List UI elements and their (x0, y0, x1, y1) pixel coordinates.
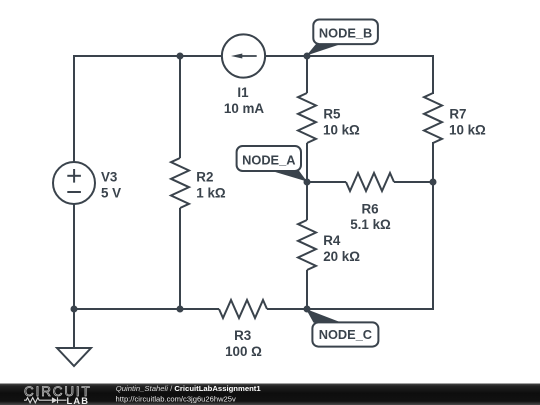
footer bar (0, 384, 540, 405)
node C junction dot (304, 306, 311, 313)
wire right rail upper (432, 55, 434, 94)
svg-text:10 mA: 10 mA (224, 101, 265, 116)
svg-text:10 kΩ: 10 kΩ (449, 123, 486, 138)
resistor R2 (171, 158, 189, 208)
voltage source V3 plus sign (67, 169, 81, 183)
node NODE_A callout (237, 146, 307, 182)
svg-text:http://circuitlab.com/c3jg6u26: http://circuitlab.com/c3jg6u26hw25v (116, 394, 237, 403)
resistor R4 (298, 220, 316, 270)
wire R6 left lead (307, 181, 346, 183)
wire R5 top lead (306, 56, 308, 93)
wire right rail lower (432, 182, 434, 310)
svg-text:R6: R6 (361, 201, 378, 216)
wire R4 top lead (306, 182, 308, 220)
svg-text:R3: R3 (234, 328, 251, 343)
svg-text:I1: I1 (237, 85, 249, 100)
node junction dot R6 right (430, 179, 437, 186)
svg-text:5.1 kΩ: 5.1 kΩ (350, 217, 391, 232)
wire R2 bottom lead (179, 208, 181, 309)
svg-text:NODE_A: NODE_A (242, 152, 295, 167)
svg-text:R2: R2 (196, 169, 213, 184)
svg-text:Quintin_Staheli / CricuitLabAs: Quintin_Staheli / CricuitLabAssignment1 (116, 384, 262, 393)
svg-text:NODE_C: NODE_C (319, 327, 372, 342)
voltage source V3 minus sign (67, 191, 81, 193)
ground (57, 309, 91, 366)
node junction dot top of R2 (177, 53, 184, 60)
wire left rail upper (73, 55, 75, 162)
svg-text:1 kΩ: 1 kΩ (196, 186, 226, 201)
svg-text:V3: V3 (101, 169, 117, 184)
svg-text:R7: R7 (449, 107, 466, 122)
svg-text:NODE_B: NODE_B (319, 26, 372, 41)
resistor R5 (298, 93, 316, 143)
node NODE_C callout (306, 309, 378, 347)
svg-text:100 Ω: 100 Ω (225, 344, 262, 359)
wire bottom-left segment (73, 308, 219, 310)
wire top-right segment (265, 55, 433, 57)
wire R6 right lead (394, 181, 433, 183)
wire top-left segment (74, 55, 222, 57)
resistor R7 (424, 93, 442, 143)
wire left rail lower (73, 205, 75, 311)
current source I1 arrow (231, 54, 257, 59)
svg-text:R5: R5 (323, 107, 341, 122)
node A junction dot (304, 179, 311, 186)
wire bottom-right segment (267, 308, 434, 310)
voltage source V3 circle (53, 162, 95, 204)
node NODE_B callout (307, 20, 378, 56)
resistor R3 (219, 300, 267, 318)
CircuitLab logo resistor-diode symbol (24, 398, 52, 403)
wire R4 bottom lead (306, 270, 308, 309)
node junction dot bottom of R2 (177, 306, 184, 313)
svg-text:10 kΩ: 10 kΩ (323, 123, 360, 138)
wire R5 bottom lead (306, 143, 308, 182)
current source I1 circle (222, 34, 265, 77)
wire right rail mid (432, 142, 434, 182)
svg-text:20 kΩ: 20 kΩ (323, 249, 360, 264)
svg-text:R4: R4 (323, 233, 341, 248)
svg-text:5 V: 5 V (101, 186, 121, 201)
svg-text:LAB: LAB (67, 396, 90, 405)
resistor R6 (346, 173, 394, 191)
node B junction dot (304, 53, 311, 60)
wire R2 top lead (179, 56, 181, 158)
node junction dot ground (71, 306, 78, 313)
